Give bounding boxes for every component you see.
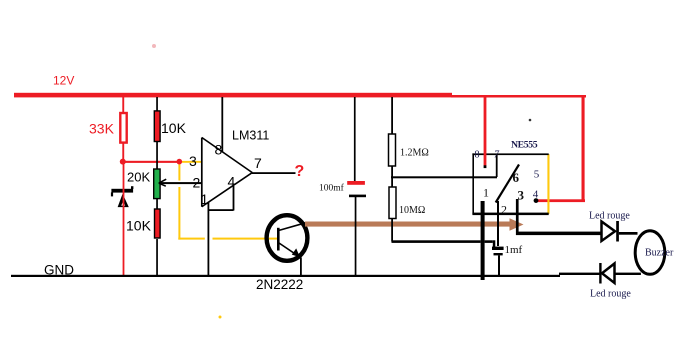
svg-text:3: 3 — [189, 153, 197, 169]
svg-text:100mf: 100mf — [319, 182, 345, 193]
svg-text:2: 2 — [193, 175, 201, 191]
svg-text:GND: GND — [44, 263, 74, 278]
svg-text:12V: 12V — [53, 74, 74, 88]
svg-text:4: 4 — [228, 174, 236, 190]
svg-text:7: 7 — [254, 155, 262, 171]
svg-text:1: 1 — [201, 191, 209, 207]
svg-text:Led rouge: Led rouge — [590, 289, 631, 300]
svg-text:33K: 33K — [89, 121, 115, 137]
svg-text:Buzzer: Buzzer — [645, 248, 674, 259]
svg-text:10MΩ: 10MΩ — [399, 205, 425, 216]
svg-text:10K: 10K — [126, 217, 152, 233]
svg-text:20K: 20K — [127, 169, 150, 184]
svg-text:1: 1 — [483, 186, 489, 200]
svg-text:LM311: LM311 — [232, 129, 269, 143]
svg-text:5: 5 — [534, 168, 540, 180]
svg-text:NE555: NE555 — [511, 140, 538, 151]
svg-text:2N2222: 2N2222 — [256, 277, 303, 292]
svg-text:1mf: 1mf — [505, 244, 523, 256]
svg-text:Led rouge: Led rouge — [589, 211, 630, 222]
svg-text:2: 2 — [501, 203, 507, 217]
svg-text:8: 8 — [475, 150, 480, 161]
svg-text:6: 6 — [513, 170, 520, 185]
svg-text:3: 3 — [518, 188, 525, 203]
svg-text:1.2MΩ: 1.2MΩ — [400, 148, 429, 159]
svg-text:10K: 10K — [161, 120, 187, 136]
svg-text:?: ? — [295, 163, 305, 180]
svg-text:8: 8 — [215, 142, 223, 158]
